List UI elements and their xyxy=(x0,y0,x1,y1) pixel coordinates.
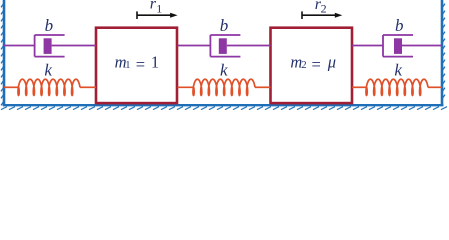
label r2 xyxy=(315,0,327,16)
spring k2 (m1 to m2) xyxy=(178,79,271,95)
svg-text:k: k xyxy=(220,61,228,80)
spring k1 (wall to m1) xyxy=(4,79,96,95)
damper b2 (m1 to m2) xyxy=(178,35,271,57)
svg-text:=: = xyxy=(312,55,321,74)
svg-text:1: 1 xyxy=(156,2,162,16)
mass m1 box xyxy=(96,28,177,103)
svg-text:2: 2 xyxy=(321,2,327,16)
damper b3 (m2 to wall) xyxy=(352,35,442,57)
wall right xyxy=(442,0,445,106)
floor xyxy=(1,105,447,109)
label m2 = mu xyxy=(290,52,336,74)
svg-text:k: k xyxy=(394,61,402,80)
label r1 xyxy=(150,0,162,16)
svg-text:1: 1 xyxy=(151,52,159,71)
svg-text:1: 1 xyxy=(125,60,130,71)
svg-text:k: k xyxy=(44,61,52,80)
wall left xyxy=(1,0,4,106)
svg-text:b: b xyxy=(45,16,54,35)
arrow r1 displacement xyxy=(137,11,178,19)
arrow r2 displacement xyxy=(302,11,342,19)
svg-text:μ: μ xyxy=(327,52,336,71)
svg-text:b: b xyxy=(395,16,404,35)
label m1 = 1 xyxy=(115,52,160,74)
mass m2 box xyxy=(271,28,353,103)
svg-text:2: 2 xyxy=(301,60,306,71)
spring k3 (m2 to wall) xyxy=(352,79,442,95)
damper b1 (wall to m1) xyxy=(4,35,96,57)
svg-text:b: b xyxy=(220,16,229,35)
svg-text:=: = xyxy=(136,55,145,74)
